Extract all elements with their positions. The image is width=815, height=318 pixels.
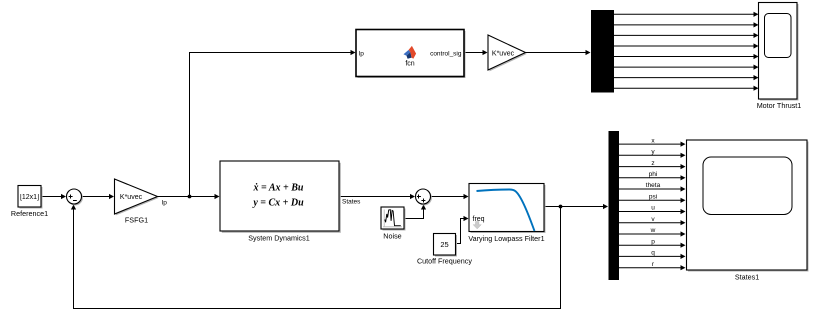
svg-text:fcn: fcn (405, 60, 414, 67)
svg-text:Cutoff Frequency: Cutoff Frequency (417, 257, 472, 266)
svg-text:phi: phi (649, 171, 658, 178)
svg-text:u: u (651, 205, 655, 212)
svg-text:Ip: Ip (162, 200, 168, 207)
svg-text:Noise: Noise (383, 231, 401, 240)
svg-text:System Dynamics1: System Dynamics1 (248, 233, 310, 242)
svg-text:25: 25 (440, 240, 448, 249)
svg-text:[12x1]: [12x1] (20, 194, 39, 201)
svg-text:q: q (651, 250, 655, 257)
svg-text:FSFG1: FSFG1 (125, 216, 148, 225)
svg-text:Varying Lowpass Filter1: Varying Lowpass Filter1 (468, 234, 544, 243)
svg-text:Motor Thrust1: Motor Thrust1 (757, 101, 802, 110)
svg-text:K*uvec: K*uvec (120, 194, 143, 201)
svg-text:ẋ = Ax + Bu: ẋ = Ax + Bu (253, 182, 304, 193)
svg-text:K*uvec: K*uvec (492, 51, 515, 58)
svg-text:theta: theta (646, 182, 661, 189)
svg-text:Reference1: Reference1 (11, 209, 48, 218)
svg-text:w: w (650, 227, 656, 234)
svg-text:p: p (651, 238, 655, 245)
svg-text:control_sig: control_sig (430, 50, 462, 57)
svg-text:States: States (342, 199, 361, 206)
svg-text:z: z (651, 160, 654, 167)
svg-text:y = Cx + Du: y = Cx + Du (252, 197, 304, 208)
svg-text:psi: psi (649, 194, 657, 201)
svg-text:Ip: Ip (359, 50, 365, 57)
svg-text:States1: States1 (735, 273, 759, 282)
